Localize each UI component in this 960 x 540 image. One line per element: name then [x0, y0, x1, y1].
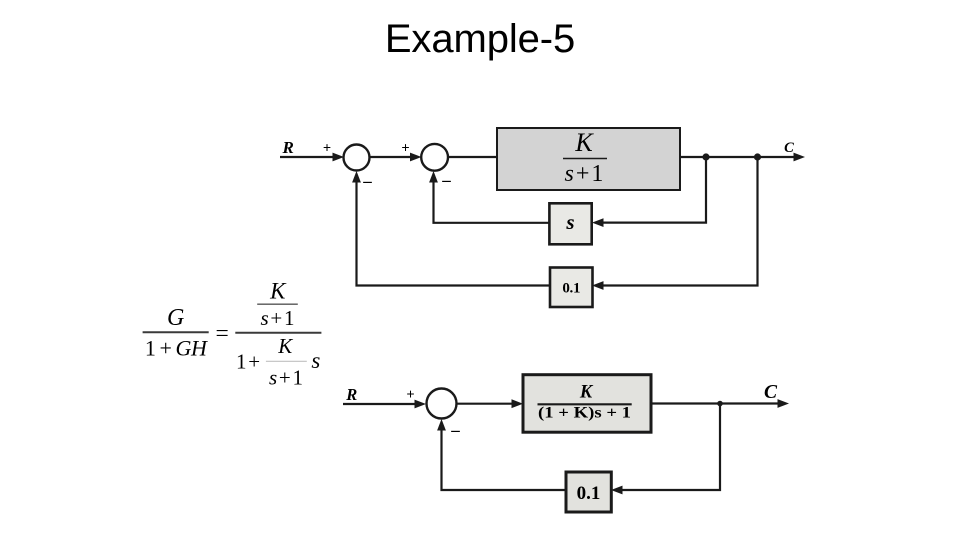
equation equals sign — [215, 321, 228, 347]
plus sign at S3 — [406, 387, 414, 403]
svg-text:s + 1: s + 1 — [565, 161, 604, 187]
equation rhs denominator 1 + (K/(s+1))s — [236, 334, 320, 389]
svg-text:C: C — [764, 382, 778, 403]
node R (input label bottom) — [345, 385, 357, 404]
svg-text:s + 1: s + 1 — [269, 365, 303, 389]
wire H1 to S2 — [429, 171, 549, 223]
wire G1 to output C — [680, 153, 805, 162]
svg-text:K: K — [579, 383, 594, 403]
svg-text:R: R — [282, 138, 294, 157]
wire R to summing junction S1 — [280, 153, 344, 162]
block H2 0.1 — [550, 268, 593, 308]
block G2 K/((1+K)s+1) — [523, 375, 651, 433]
wire G2 to output C — [651, 399, 789, 408]
svg-text:–: – — [441, 171, 451, 190]
wire N3 down to 0.1 feedback — [611, 404, 720, 495]
svg-text:G: G — [167, 305, 184, 331]
svg-text:K: K — [277, 334, 293, 358]
wire S3 to block G2 — [457, 399, 524, 408]
svg-text:–: – — [362, 172, 372, 191]
svg-text:K: K — [574, 128, 594, 157]
wire H2 to S1 — [352, 171, 550, 286]
svg-text:K: K — [269, 279, 287, 304]
plus sign at S1 — [323, 141, 331, 157]
block G1 K/(s+1) — [497, 128, 680, 190]
node N3 (junction dot) — [717, 401, 723, 407]
summing junction S3 — [427, 389, 457, 419]
wire R to summing junction S3 — [343, 400, 426, 409]
summing junction S2 — [421, 144, 448, 171]
node R (input label) — [282, 138, 294, 157]
svg-text:(1 + K)s + 1: (1 + K)s + 1 — [538, 405, 631, 422]
wire S1 to summing junction S2 — [370, 153, 422, 162]
minus sign at S2 — [441, 171, 451, 190]
equation rhs main fraction bar — [235, 332, 321, 334]
wire N2 down to 0.1 feedback — [592, 157, 758, 290]
svg-text:–: – — [450, 421, 460, 440]
minus sign at S1 — [362, 172, 372, 191]
wire N1 down to s-feedback — [592, 157, 706, 227]
node N2 (junction dot) — [754, 153, 761, 160]
minus sign at S3 — [450, 421, 460, 440]
equation lhs G/(1+GH) — [143, 305, 209, 361]
svg-text:+: + — [401, 141, 409, 157]
svg-text:R: R — [345, 385, 357, 404]
svg-text:0.1: 0.1 — [577, 483, 601, 504]
svg-text:+: + — [323, 141, 331, 157]
plus sign at S2 — [401, 141, 409, 157]
node N1 (junction dot) — [702, 153, 709, 160]
svg-text:s: s — [565, 210, 574, 234]
block H1 s — [549, 203, 591, 244]
svg-text:C: C — [784, 140, 794, 156]
svg-text:+: + — [406, 387, 414, 403]
summing junction S1 — [344, 145, 370, 171]
svg-text:1 +: 1 + — [236, 350, 260, 374]
svg-text:s + 1: s + 1 — [260, 306, 294, 330]
title — [0, 17, 960, 62]
svg-text:0.1: 0.1 — [562, 281, 580, 297]
wire H3 to S3 — [437, 419, 566, 490]
wire S2 to block G — [448, 156, 497, 158]
block H3 0.1 — [566, 472, 611, 512]
svg-text:s: s — [311, 348, 320, 373]
node C (output label bottom) — [764, 382, 778, 403]
equation rhs numerator K/(s+1) — [257, 279, 298, 331]
node C (output label top) — [784, 140, 794, 156]
svg-text:=: = — [215, 321, 228, 347]
svg-text:1 + GH: 1 + GH — [145, 336, 208, 361]
